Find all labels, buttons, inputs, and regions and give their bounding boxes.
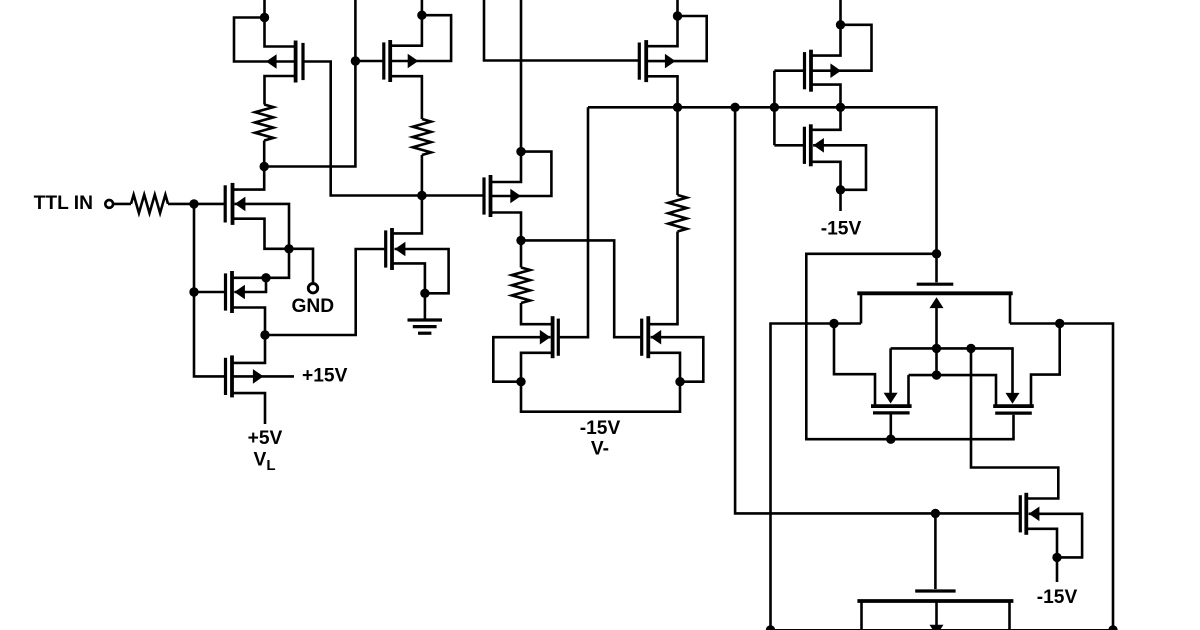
wire bottom rail: [769, 629, 1114, 630]
wire M11 drain-bulk loop: [811, 25, 872, 71]
resistor R4: [512, 268, 530, 304]
wire R1 bottom to node: [263, 141, 266, 167]
transistor MT3 bulk arrow (N-ch): [1006, 393, 1020, 404]
node M8 drain junction: [673, 11, 682, 20]
wire MT4 bulk lead: [935, 601, 938, 626]
wire TTL terminal to R2: [113, 203, 131, 206]
wire bulk tie upper: [891, 348, 1013, 393]
wire MT2 gate lead: [889, 415, 892, 440]
wire R4 to M9 drain: [521, 303, 553, 324]
wire M6 source to ground: [424, 293, 427, 318]
wire node to M15 drain: [971, 348, 1058, 498]
transistor M7: [482, 177, 485, 214]
wire M2 drain-bulk loop: [390, 15, 451, 61]
wire M3 gate lead: [194, 203, 225, 206]
wire R2 to TTL node: [168, 203, 194, 206]
node R1/M3-drain junction: [260, 162, 269, 171]
transistor MT2: [873, 411, 910, 414]
wire M8 source lead: [646, 76, 677, 107]
wire R5 top lead: [676, 107, 679, 195]
wire MT2 left lead: [834, 324, 875, 406]
transistor M1 bulk arrow (P-ch): [266, 54, 277, 69]
node M2 gate junction: [351, 56, 360, 65]
wire M3-source node to M4 drain: [266, 249, 289, 278]
node M2 drain junction: [417, 11, 426, 20]
wire M1 drain-bulk loop: [234, 18, 296, 62]
wire MT4 left lead: [860, 601, 863, 630]
wire MT1 right lead: [1009, 293, 1012, 323]
svg-text:V-: V-: [591, 438, 609, 459]
transistor M4: [224, 273, 227, 310]
transistor M15 bulk arrow (N-ch): [1029, 507, 1040, 522]
wire M7 drain rail: [491, 0, 522, 182]
wire M12 drain lead: [811, 107, 841, 130]
wire left segment / left rail: [771, 324, 862, 630]
wire M5-drain node to M6 gate: [265, 249, 386, 335]
wire M2 gate lead: [355, 60, 383, 63]
wire branch down to M15 gate: [735, 107, 1020, 513]
wire MT4 right lead: [1008, 601, 1011, 630]
wire M2 drain rail: [390, 0, 422, 46]
wire M4 gate lead: [194, 291, 226, 294]
node bottom rail right: [1108, 625, 1117, 630]
node bulk tie / MT1 bulk: [932, 344, 941, 353]
transistor M1: [301, 43, 304, 80]
node M9 source junction: [516, 377, 525, 386]
transistor M12: [803, 127, 806, 164]
node M12 source junction: [836, 185, 845, 194]
transistor M7 bulk arrow (P-ch): [510, 189, 521, 204]
svg-text:TTL IN: TTL IN: [34, 193, 93, 214]
wire M15 bulk lead: [1029, 514, 1083, 558]
wire R3 to M6 drain: [392, 155, 422, 233]
transistor M6: [384, 230, 387, 267]
transistor M8: [638, 43, 641, 80]
wire M12 gate lead: [774, 144, 804, 147]
resistor R5: [668, 195, 686, 232]
svg-text:+15V: +15V: [302, 365, 348, 386]
node bias rail / branch down: [730, 103, 739, 112]
wire M10 source lead: [648, 353, 680, 382]
node bias rail / M11-M12 gates: [770, 103, 779, 112]
wire M8 drain-bulk loop: [646, 16, 707, 61]
wire R4 top lead: [520, 240, 523, 267]
transistor MT1 bulk arrow (N-ch): [930, 297, 944, 308]
wire MT1 gate lead: [935, 254, 938, 282]
wire M12 source lead: [811, 162, 841, 190]
wire M7 source lead: [491, 213, 522, 241]
node M4 gate junction: [189, 287, 198, 296]
wire M5 drain lead: [232, 335, 265, 363]
wire MT1 bulk lead: [935, 300, 938, 375]
wire M5 source lead to +5V: [232, 393, 265, 424]
wire top rail to M8 gate: [484, 0, 640, 61]
transistor M11 bulk arrow (P-ch): [830, 63, 841, 78]
wire M6 bulk lead: [395, 249, 449, 293]
wire M11/M12 gate tie: [773, 71, 776, 146]
svg-text:-15V: -15V: [580, 418, 621, 439]
resistor R2 (series input): [131, 195, 168, 213]
wire M7 drain-bulk loop: [491, 152, 552, 196]
svg-text:-15V: -15V: [1037, 587, 1078, 608]
svg-text:+5V: +5V: [248, 428, 283, 449]
node M7 drain junction: [516, 147, 525, 156]
ground symbol: [408, 318, 443, 321]
wire M4 source lead: [232, 308, 265, 336]
wire MT2 bulk lead: [889, 348, 892, 393]
transistor MT4: [915, 589, 955, 592]
transistor M4 bulk arrow (N-ch): [234, 285, 245, 300]
transistor M3: [224, 185, 227, 222]
node M6 source/ground: [420, 289, 429, 298]
wire MT4 gate lead: [934, 513, 937, 589]
wire M1 gate to M7 gate: [303, 62, 484, 196]
wire M3 drain node up to M2 gate rail: [264, 0, 355, 167]
wire lead tie lower right: [937, 375, 997, 405]
wire TTL node down to M5 gate: [194, 204, 226, 377]
wire M9 source lead: [521, 353, 553, 382]
node MT4 gate junction: [931, 509, 940, 518]
wire MT1 left lead: [860, 293, 863, 323]
transistor MT2 bulk arrow (N-ch): [884, 393, 898, 404]
terminal GND: [308, 284, 317, 293]
wire M11 drain rail: [811, 0, 841, 56]
node TTL input: [189, 199, 198, 208]
wire M11 gate lead: [774, 69, 804, 72]
node bulk tie / branch to M15: [966, 344, 975, 353]
node M1-gate-wire/R3 junction: [417, 191, 426, 200]
node M7 source junction: [516, 236, 525, 245]
wire R5 to M10 drain: [648, 232, 677, 325]
node MT2 gate on rail: [886, 435, 895, 444]
node M15 source junction: [1052, 553, 1061, 562]
wire M12 source to -15V: [839, 190, 842, 211]
transistor M2 bulk arrow (P-ch): [408, 54, 419, 69]
transistor M9 bulk arrow (N-ch): [540, 330, 551, 345]
node MT1 gate junction: [932, 249, 941, 258]
wire M7 source to M10 gate: [521, 240, 642, 337]
wire M1 drain lead: [265, 18, 296, 47]
transistor M11: [803, 52, 806, 89]
wire M9 bulk lead: [493, 337, 550, 382]
transistor MT4 bulk arrow: [930, 625, 944, 630]
transistor M5 bulk arrow (P-ch): [253, 369, 264, 384]
svg-text:GND: GND: [291, 296, 334, 317]
transistor M6 bulk arrow (N-ch): [395, 242, 406, 257]
node lead tie / MT1 bulk end: [932, 370, 941, 379]
resistor R1: [255, 105, 273, 141]
transistor M10 bulk arrow (N-ch): [651, 330, 662, 345]
node M11 drain junction: [836, 20, 845, 29]
wire M8 drain rail: [646, 0, 677, 46]
wire M4 drain lead: [232, 276, 266, 279]
wire V+ rail to M1 drain: [263, 0, 266, 18]
node MT2 left lead junction: [829, 319, 838, 328]
node M1 drain junction: [260, 13, 269, 22]
wire M2 source to R3: [390, 76, 422, 119]
node M8 source on bias rail: [673, 103, 682, 112]
node M4-source/M5-drain: [260, 330, 269, 339]
wire M1 source lead to R1: [265, 76, 296, 105]
wire bias rail left end to M9 gate: [558, 107, 588, 337]
node M4 drain junction: [261, 273, 270, 282]
transistor M2: [382, 42, 385, 79]
transistor M9: [557, 319, 560, 356]
wire M3 bulk lead: [235, 204, 290, 249]
wire M3 source lead: [233, 219, 290, 249]
wire bias rail: [588, 107, 937, 254]
resistor R3: [413, 119, 431, 155]
wire to GND terminal: [289, 249, 313, 284]
node M3 source/GND: [284, 244, 293, 253]
node bias rail / M11 source: [836, 103, 845, 112]
wire M11 source lead: [811, 85, 841, 108]
wire M12 bulk lead: [813, 145, 866, 190]
transistor M15: [1019, 495, 1022, 532]
wire M15 source lead: [1026, 529, 1057, 558]
transistor M12 bulk arrow (N-ch): [813, 138, 824, 153]
svg-text:-15V: -15V: [821, 219, 862, 240]
transistor M10: [640, 319, 643, 356]
node M10 source junction: [675, 377, 684, 386]
wire M15 source to -15V: [1056, 557, 1059, 582]
wire M3 drain lead: [233, 167, 265, 190]
wire right segment / right rail: [1010, 324, 1113, 630]
node bottom rail left: [766, 625, 775, 630]
wire M4 bulk lead: [234, 278, 266, 292]
wire tail to V-: [521, 382, 680, 412]
node MT3 right lead junction: [1055, 319, 1064, 328]
wire MT2 right lead: [907, 375, 910, 405]
wire MT3 right lead: [1031, 324, 1060, 406]
transistor MT1: [917, 283, 954, 286]
wire M10 bulk lead: [651, 337, 704, 382]
transistor M8 bulk arrow (P-ch): [665, 54, 676, 69]
transistor M5: [224, 358, 227, 395]
terminal TTL IN: [105, 200, 113, 208]
wire MT1 gate loop to MT2/MT3 gates: [806, 254, 1013, 439]
wire lead tie lower: [909, 374, 937, 377]
transistor MT3: [995, 412, 1032, 415]
transistor M3 bulk arrow (N-ch): [235, 197, 246, 212]
wire M5 bulk lead to +15V: [232, 375, 294, 378]
wire M6 source lead: [392, 263, 425, 293]
